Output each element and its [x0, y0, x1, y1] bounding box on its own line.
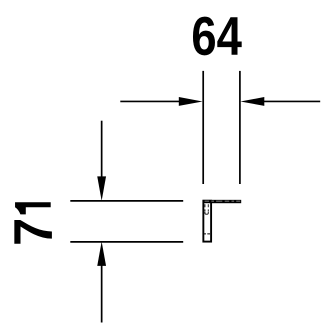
hidden dashed line near tube bottom	[203, 233, 211, 235]
hidden dashed line inside top bar	[205, 200, 241, 202]
hidden channel bottom hook inside tube	[205, 212, 208, 215]
bracket vertical tube outline	[203, 201, 211, 242]
hidden dashed channel line left inside tube	[204, 204, 206, 211]
arrowhead pointing down at top extension line	[97, 176, 106, 201]
dimension line lower segment of 71	[101, 265, 103, 323]
dimension text 64, digit 4	[217, 17, 241, 55]
dimension line right segment of 64	[262, 100, 320, 102]
dimension line upper segment of 71	[101, 121, 103, 178]
dimension text 71 rotated, digit 1 custom glyph	[15, 202, 51, 214]
arrowhead pointing up at bottom extension line	[97, 242, 106, 266]
extension line left of 64	[202, 71, 204, 184]
extension line bottom of 71	[70, 241, 183, 243]
arrowhead pointing left at right extension line	[240, 97, 264, 106]
extension line top of 71	[70, 200, 183, 202]
dimension text 64, digit 6	[193, 17, 215, 56]
extension line right of 64	[239, 71, 241, 184]
dimension line left segment of 64	[120, 100, 181, 102]
dimension text 71 rotated, digit 7	[14, 220, 52, 244]
bracket top mounting bar	[203, 200, 242, 203]
hidden dashed channel line right inside tube	[207, 204, 209, 211]
arrowhead pointing right at left extension line	[179, 97, 203, 106]
